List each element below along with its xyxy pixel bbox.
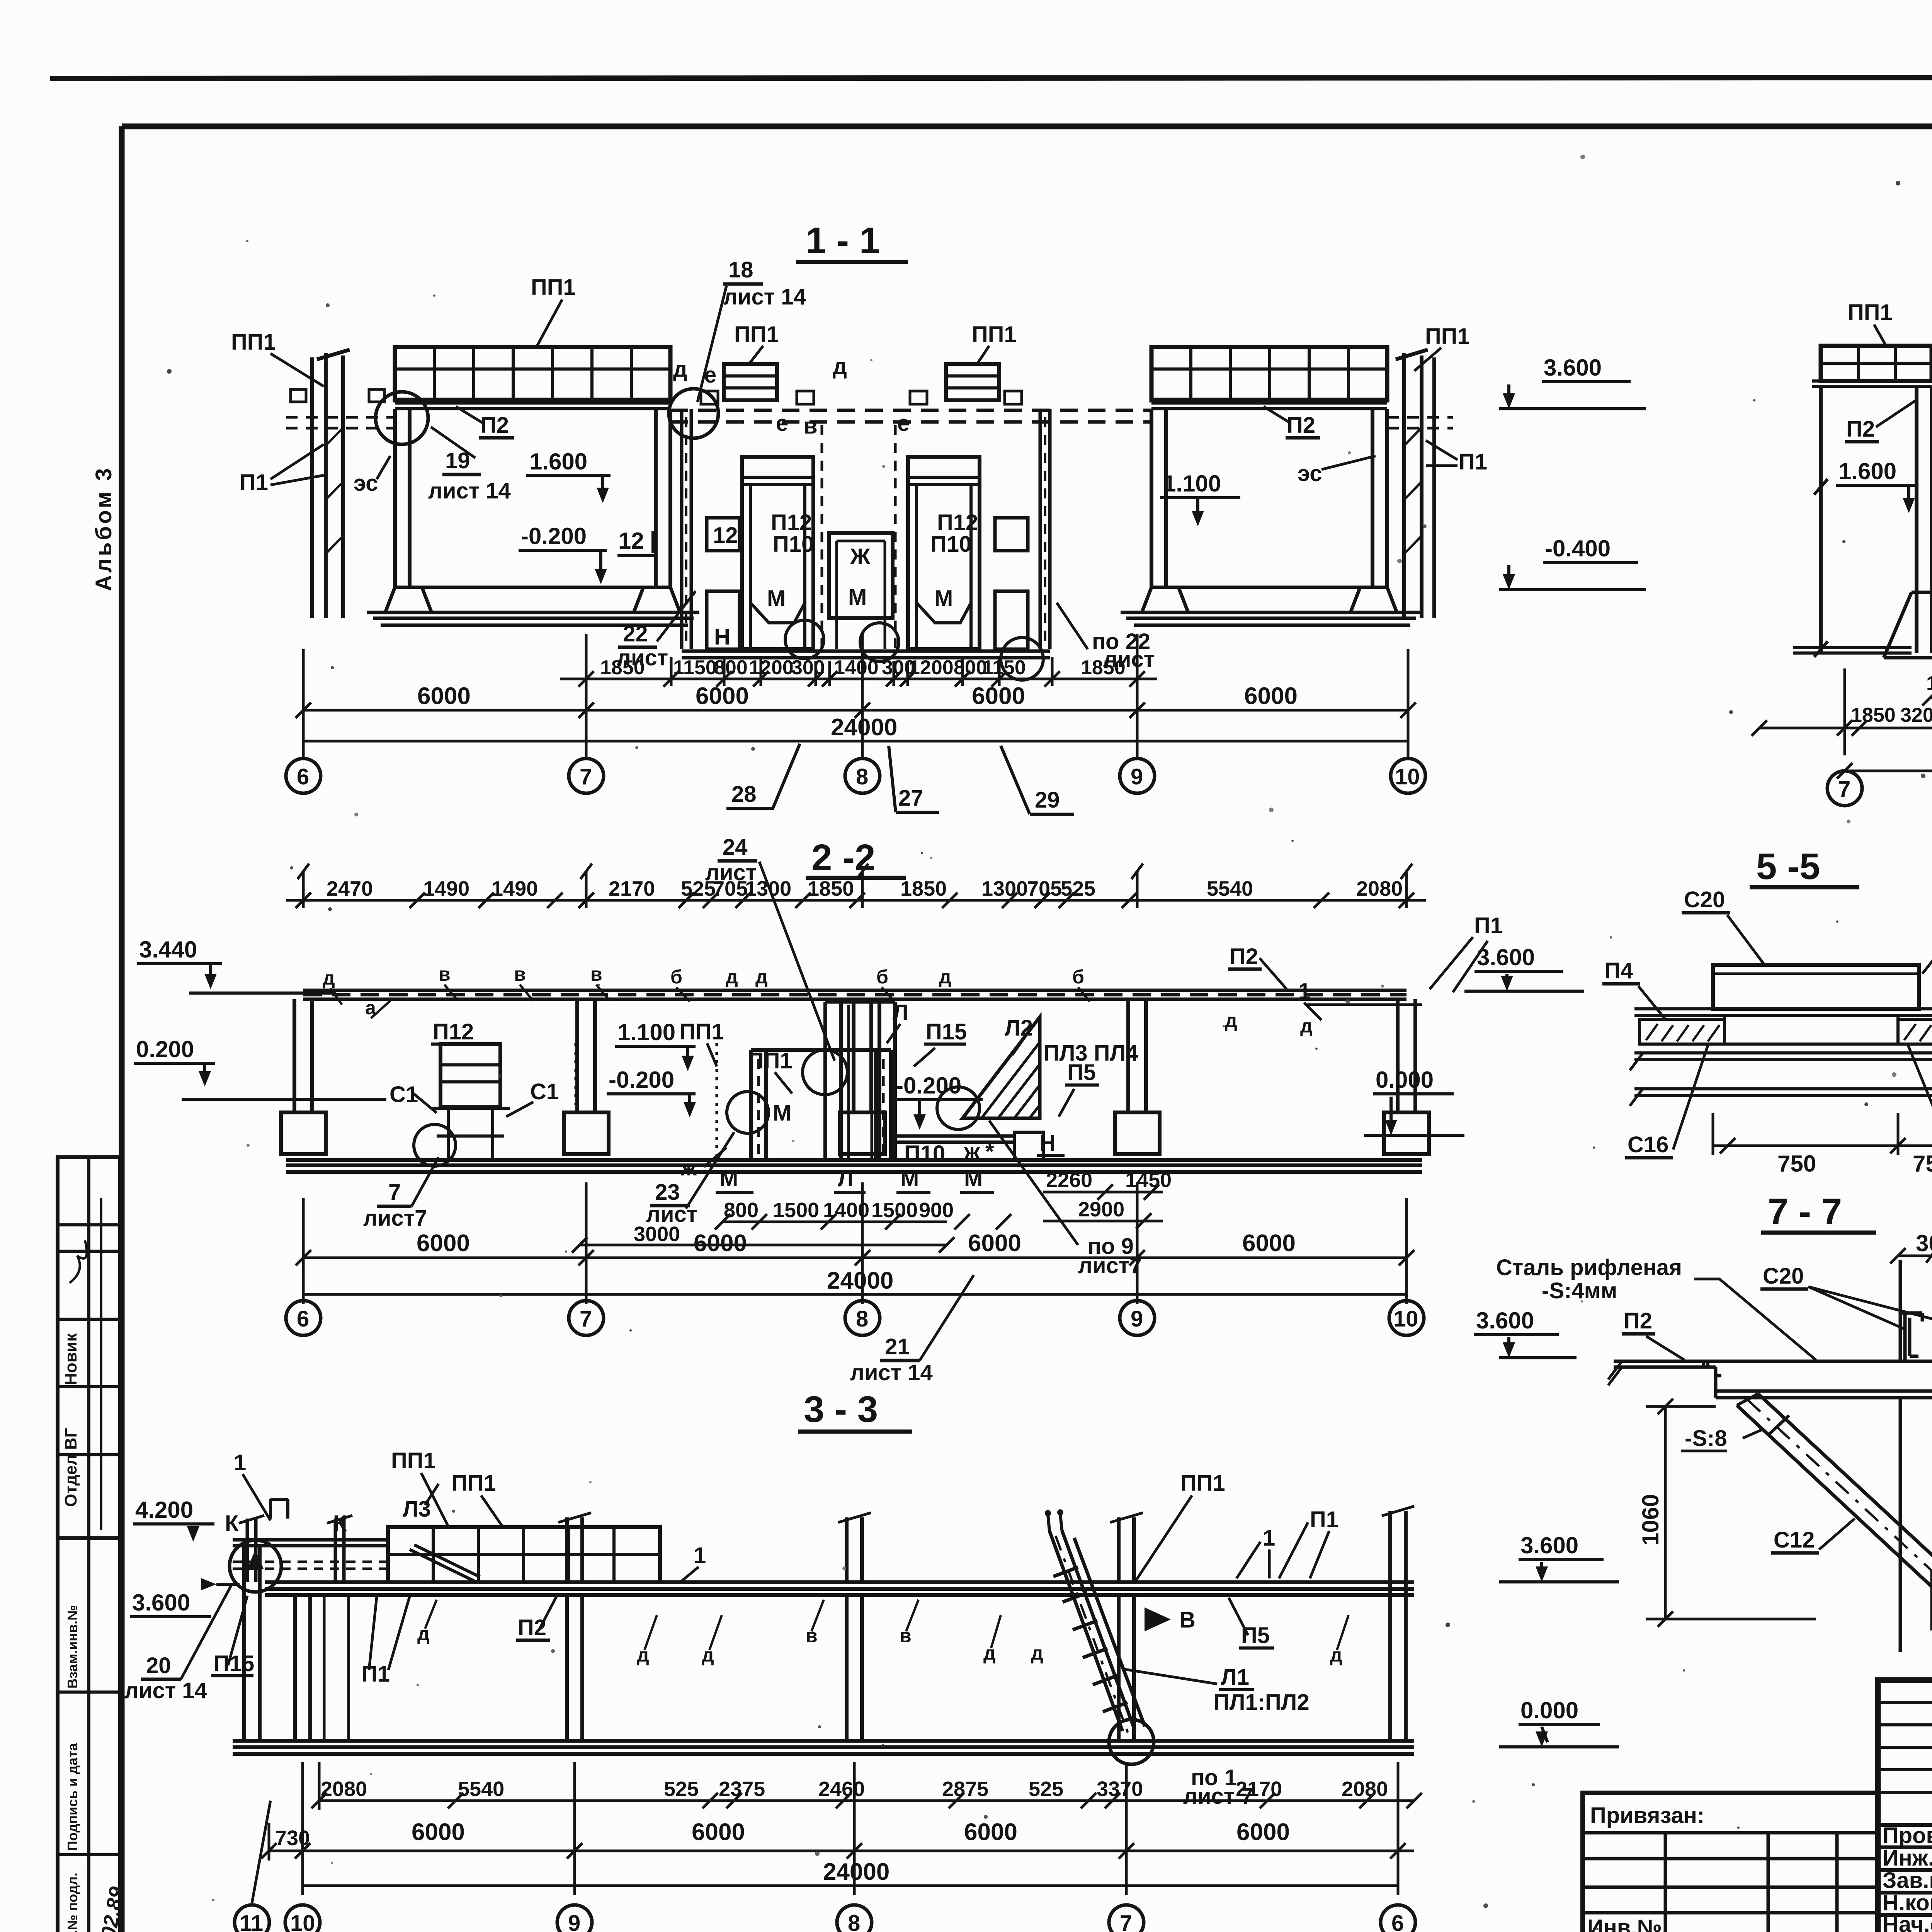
svg-text:1: 1 [694,1543,706,1568]
svg-text:6000: 6000 [694,1230,747,1257]
svg-text:5540: 5540 [458,1777,504,1801]
svg-text:22: 22 [623,621,648,646]
svg-text:2080: 2080 [1342,1777,1388,1801]
svg-text:6000: 6000 [692,1819,745,1845]
svg-text:П1: П1 [1474,913,1503,938]
svg-text:12: 12 [713,523,738,548]
svg-text:лист7: лист7 [1078,1253,1142,1278]
svg-text:3.600: 3.600 [1544,355,1602,381]
svg-text:730: 730 [275,1827,310,1850]
svg-text:Инж.: Инж. [1883,1845,1932,1871]
svg-text:ПП1: ПП1 [231,330,276,355]
svg-text:C20: C20 [1763,1264,1804,1289]
svg-text:0.000: 0.000 [1520,1697,1578,1723]
svg-text:в: в [804,413,818,439]
svg-text:525: 525 [664,1777,699,1801]
svg-text:П10: П10 [904,1141,945,1166]
svg-text:Инв.№ подл.: Инв.№ подл. [65,1872,80,1932]
svg-text:10: 10 [1393,1306,1418,1332]
svg-text:М: М [900,1166,919,1191]
svg-text:д: д [833,354,847,379]
svg-text:д: д [1300,1015,1313,1037]
svg-text:900: 900 [919,1199,954,1222]
svg-text:ПП1: ПП1 [451,1471,496,1496]
svg-text:П12: П12 [433,1019,474,1044]
svg-text:6000: 6000 [964,1819,1017,1845]
svg-text:Инв.№: Инв.№ [1587,1915,1662,1932]
svg-text:П2: П2 [1287,413,1315,438]
svg-text:2875: 2875 [942,1777,988,1801]
svg-text:П2: П2 [1846,417,1875,442]
svg-text:-0.200: -0.200 [521,523,587,549]
svg-text:В: В [1179,1607,1196,1633]
svg-text:1: 1 [1298,979,1311,1004]
svg-text:б: б [670,966,682,988]
svg-text:лист 14: лист 14 [428,478,511,503]
svg-text:24000: 24000 [827,1267,893,1294]
svg-text:8: 8 [856,1306,868,1332]
svg-text:29: 29 [1035,787,1060,813]
svg-text:д: д [1225,1010,1237,1031]
svg-text:6000: 6000 [1236,1819,1290,1845]
svg-text:2470: 2470 [327,877,373,900]
svg-text:лист 14: лист 14 [850,1360,933,1385]
svg-text:М: М [964,1166,983,1191]
svg-text:Зав.гр.: Зав.гр. [1883,1868,1932,1893]
svg-text:П1: П1 [1459,449,1487,474]
svg-text:1: 1 [1263,1526,1275,1551]
svg-text:П1: П1 [1310,1507,1338,1532]
svg-text:Привязан:: Привязан: [1590,1803,1704,1828]
svg-text:300: 300 [791,656,825,679]
svg-text:Альбом 3: Альбом 3 [91,466,116,591]
svg-text:К: К [225,1511,239,1536]
svg-text:д: д [323,967,335,989]
svg-text:525: 525 [1061,877,1095,900]
svg-text:3.600: 3.600 [1477,944,1535,970]
svg-text:12: 12 [618,528,644,554]
svg-text:28: 28 [731,782,757,807]
svg-text:ПП1: ПП1 [531,275,576,300]
svg-text:1400: 1400 [823,1199,869,1222]
svg-text:ПП1: ПП1 [391,1448,436,1473]
svg-text:П2: П2 [1230,944,1258,969]
svg-text:д: д [726,966,738,988]
svg-text:10: 10 [290,1911,315,1932]
svg-text:б: б [876,966,888,988]
svg-text:1450: 1450 [1125,1168,1172,1192]
svg-text:1850: 1850 [900,877,947,900]
svg-text:1060: 1060 [1638,1494,1663,1546]
svg-text:лист 14: лист 14 [723,284,806,310]
svg-text:1.600: 1.600 [529,449,587,474]
svg-text:7: 7 [1838,777,1850,802]
svg-text:М: М [934,586,953,611]
svg-text:1300: 1300 [981,877,1028,900]
svg-text:800: 800 [714,656,748,679]
svg-text:1850: 1850 [1851,704,1896,726]
svg-text:-S:8: -S:8 [1685,1426,1727,1451]
svg-text:П2: П2 [1624,1308,1652,1333]
svg-text:Л: Л [838,1166,854,1191]
svg-text:П1: П1 [361,1662,390,1687]
svg-text:1200: 1200 [749,656,794,679]
svg-text:6000: 6000 [968,1230,1021,1257]
svg-text:20: 20 [146,1653,171,1678]
svg-text:7: 7 [388,1180,401,1205]
svg-text:-0.400: -0.400 [1545,536,1611,561]
svg-text:Л: Л [893,1000,908,1025]
svg-text:П5: П5 [1067,1060,1096,1085]
svg-text:2260: 2260 [1046,1168,1092,1192]
svg-text:эс: эс [354,471,378,496]
svg-text:3370: 3370 [1097,1777,1143,1801]
svg-text:6000: 6000 [696,683,749,709]
svg-text:Л1: Л1 [1221,1665,1249,1690]
svg-text:3.600: 3.600 [132,1590,190,1616]
svg-text:C20: C20 [1684,887,1725,912]
svg-text:лист 7: лист 7 [1183,1784,1253,1809]
svg-text:П5: П5 [1241,1623,1270,1648]
svg-text:6000: 6000 [412,1819,465,1845]
svg-text:3 - 3: 3 - 3 [804,1389,878,1430]
svg-text:д: д [417,1623,430,1645]
svg-text:Ж: Ж [850,544,871,569]
svg-text:П2: П2 [518,1615,546,1640]
svg-text:-0.200: -0.200 [896,1073,961,1099]
svg-text:ПП1: ПП1 [679,1019,724,1044]
svg-text:лист 14: лист 14 [124,1678,207,1703]
svg-text:1.100: 1.100 [1163,471,1221,497]
svg-text:7 - 7: 7 - 7 [1768,1191,1842,1232]
svg-text:5 -5: 5 -5 [1756,846,1820,887]
svg-text:1.600: 1.600 [1838,458,1896,484]
svg-text:300: 300 [1916,1230,1932,1256]
svg-text:Сталь рифленая: Сталь рифленая [1496,1255,1682,1280]
svg-text:д: д [637,1644,649,1666]
svg-text:Подпись и дата: Подпись и дата [65,1743,80,1851]
svg-text:М: М [848,585,867,610]
svg-text:4.200: 4.200 [135,1497,193,1523]
svg-text:525: 525 [1029,1777,1063,1801]
svg-text:д: д [1031,1642,1043,1664]
svg-text:24: 24 [723,835,748,860]
svg-text:6000: 6000 [417,1230,470,1257]
svg-text:д: д [983,1642,996,1664]
svg-text:6000: 6000 [1244,683,1298,709]
svg-text:1500: 1500 [773,1199,819,1222]
svg-text:1490: 1490 [492,877,538,900]
svg-text:-0.200: -0.200 [609,1067,674,1093]
svg-text:27: 27 [898,786,923,811]
svg-text:750: 750 [1777,1151,1816,1177]
svg-text:в: в [900,1625,912,1646]
svg-text:1850: 1850 [600,656,645,679]
svg-text:8: 8 [848,1911,860,1932]
svg-text:ПП1: ПП1 [1180,1471,1225,1496]
svg-text:2 -2: 2 -2 [811,837,875,878]
svg-text:3.600: 3.600 [1520,1532,1578,1558]
svg-text:в: в [439,963,451,985]
svg-text:2080: 2080 [321,1777,367,1801]
svg-text:1300: 1300 [745,877,791,900]
svg-text:С1: С1 [530,1079,559,1104]
svg-text:11: 11 [240,1911,263,1932]
svg-text:2170: 2170 [609,877,655,900]
svg-text:1 - 1: 1 - 1 [806,220,880,261]
svg-text:д: д [939,966,951,988]
svg-text:705: 705 [1027,877,1062,900]
svg-text:6: 6 [297,1306,309,1332]
svg-text:6000: 6000 [417,683,471,709]
svg-text:ПП1: ПП1 [748,1048,793,1073]
svg-text:е: е [897,411,910,436]
svg-text:2375: 2375 [719,1777,765,1801]
svg-text:1490: 1490 [423,877,469,900]
svg-text:1400: 1400 [834,656,879,679]
svg-text:5540: 5540 [1207,877,1253,900]
svg-text:ПП1: ПП1 [734,322,779,347]
svg-text:Провер.: Провер. [1883,1823,1932,1848]
svg-text:К: К [333,1511,347,1536]
svg-text:1500: 1500 [871,1199,918,1222]
svg-text:525: 525 [681,877,716,900]
svg-text:ПП1: ПП1 [972,322,1017,347]
svg-text:320: 320 [1900,704,1932,726]
svg-text:705: 705 [713,877,748,900]
svg-text:ПП1: ПП1 [1848,300,1893,325]
svg-text:8: 8 [856,764,868,789]
svg-text:7: 7 [1120,1911,1132,1932]
svg-text:7: 7 [580,1306,592,1332]
svg-text:1200: 1200 [909,656,954,679]
svg-text:C16: C16 [1628,1132,1668,1157]
svg-text:9: 9 [1131,764,1143,789]
svg-text:П4: П4 [1604,958,1633,983]
svg-text:1150: 1150 [673,656,717,679]
svg-text:1850: 1850 [1081,656,1126,679]
svg-text:П15: П15 [213,1651,254,1676]
svg-text:3.600: 3.600 [1476,1308,1534,1333]
svg-text:ж: ж [680,1155,697,1180]
svg-text:Нач.отд: Нач.отд [1883,1912,1932,1932]
svg-text:ПЛ1:ПЛ2: ПЛ1:ПЛ2 [1213,1690,1310,1715]
svg-text:3.440: 3.440 [139,937,197,963]
svg-text:24000: 24000 [831,714,897,741]
svg-text:в: в [514,963,526,985]
svg-text:П10: П10 [773,532,814,557]
svg-text:3000: 3000 [634,1223,680,1246]
svg-text:П15: П15 [926,1019,967,1044]
svg-text:д: д [673,357,687,382]
svg-text:0.000: 0.000 [1376,1067,1434,1093]
svg-text:1: 1 [234,1450,246,1475]
svg-text:18: 18 [728,257,753,282]
svg-text:1150: 1150 [982,656,1026,679]
svg-text:7: 7 [580,764,592,789]
svg-text:6: 6 [297,764,309,789]
svg-text:800: 800 [724,1199,759,1222]
svg-text:6: 6 [1391,1911,1404,1932]
svg-text:д: д [1330,1644,1342,1666]
svg-text:Л2: Л2 [1005,1015,1033,1041]
svg-text:6000: 6000 [1242,1230,1296,1257]
svg-text:эс: эс [1298,461,1322,486]
svg-text:2460: 2460 [818,1777,865,1801]
svg-text:Отдел ВГ: Отдел ВГ [61,1428,80,1507]
svg-text:9: 9 [1131,1306,1143,1332]
svg-text:б: б [1072,966,1084,988]
svg-text:М: М [719,1166,738,1191]
svg-text:6000: 6000 [972,683,1025,709]
svg-text:П10: П10 [930,532,971,557]
svg-text:П2: П2 [480,413,509,438]
svg-text:750: 750 [1913,1151,1932,1177]
svg-text:23: 23 [655,1180,680,1205]
svg-text:Новик: Новик [61,1333,80,1385]
svg-text:2080: 2080 [1356,877,1403,900]
svg-text:9: 9 [568,1911,580,1932]
svg-text:д: д [755,966,768,988]
svg-text:24000: 24000 [823,1859,889,1885]
svg-text:в: в [590,963,602,985]
svg-text:C12: C12 [1774,1527,1815,1553]
svg-text:1050: 1050 [1926,672,1932,695]
svg-text:П1: П1 [240,470,268,495]
svg-text:2900: 2900 [1078,1198,1124,1221]
svg-text:21: 21 [885,1334,910,1359]
svg-text:-S:4мм: -S:4мм [1542,1278,1617,1303]
svg-text:Взам.инв.№: Взам.инв.№ [65,1605,80,1689]
svg-text:М: М [773,1100,791,1126]
svg-text:д: д [702,1644,714,1666]
svg-text:1850: 1850 [808,877,854,900]
svg-text:е: е [776,411,788,436]
svg-text:Н: Н [714,624,730,650]
svg-text:10: 10 [1395,764,1420,789]
svg-text:М: М [767,586,786,611]
svg-text:лист7: лист7 [363,1206,427,1231]
svg-text:0.200: 0.200 [136,1036,194,1062]
svg-text:1.100: 1.100 [617,1019,675,1045]
svg-text:ПП1: ПП1 [1425,324,1470,349]
